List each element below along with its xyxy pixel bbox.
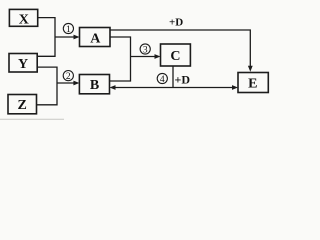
svg-text:E: E (248, 76, 257, 91)
svg-text:3: 3 (143, 45, 148, 55)
svg-text:C: C (170, 49, 180, 64)
svg-text:2: 2 (66, 72, 71, 82)
svg-text:X: X (19, 13, 29, 28)
svg-text:+D: +D (175, 72, 191, 86)
svg-text:+D: +D (169, 16, 183, 28)
svg-text:A: A (90, 31, 101, 46)
svg-text:Z: Z (18, 98, 27, 113)
svg-text:1: 1 (66, 25, 71, 35)
svg-text:4: 4 (160, 75, 165, 85)
svg-text:B: B (90, 78, 99, 93)
svg-text:Y: Y (18, 57, 28, 72)
